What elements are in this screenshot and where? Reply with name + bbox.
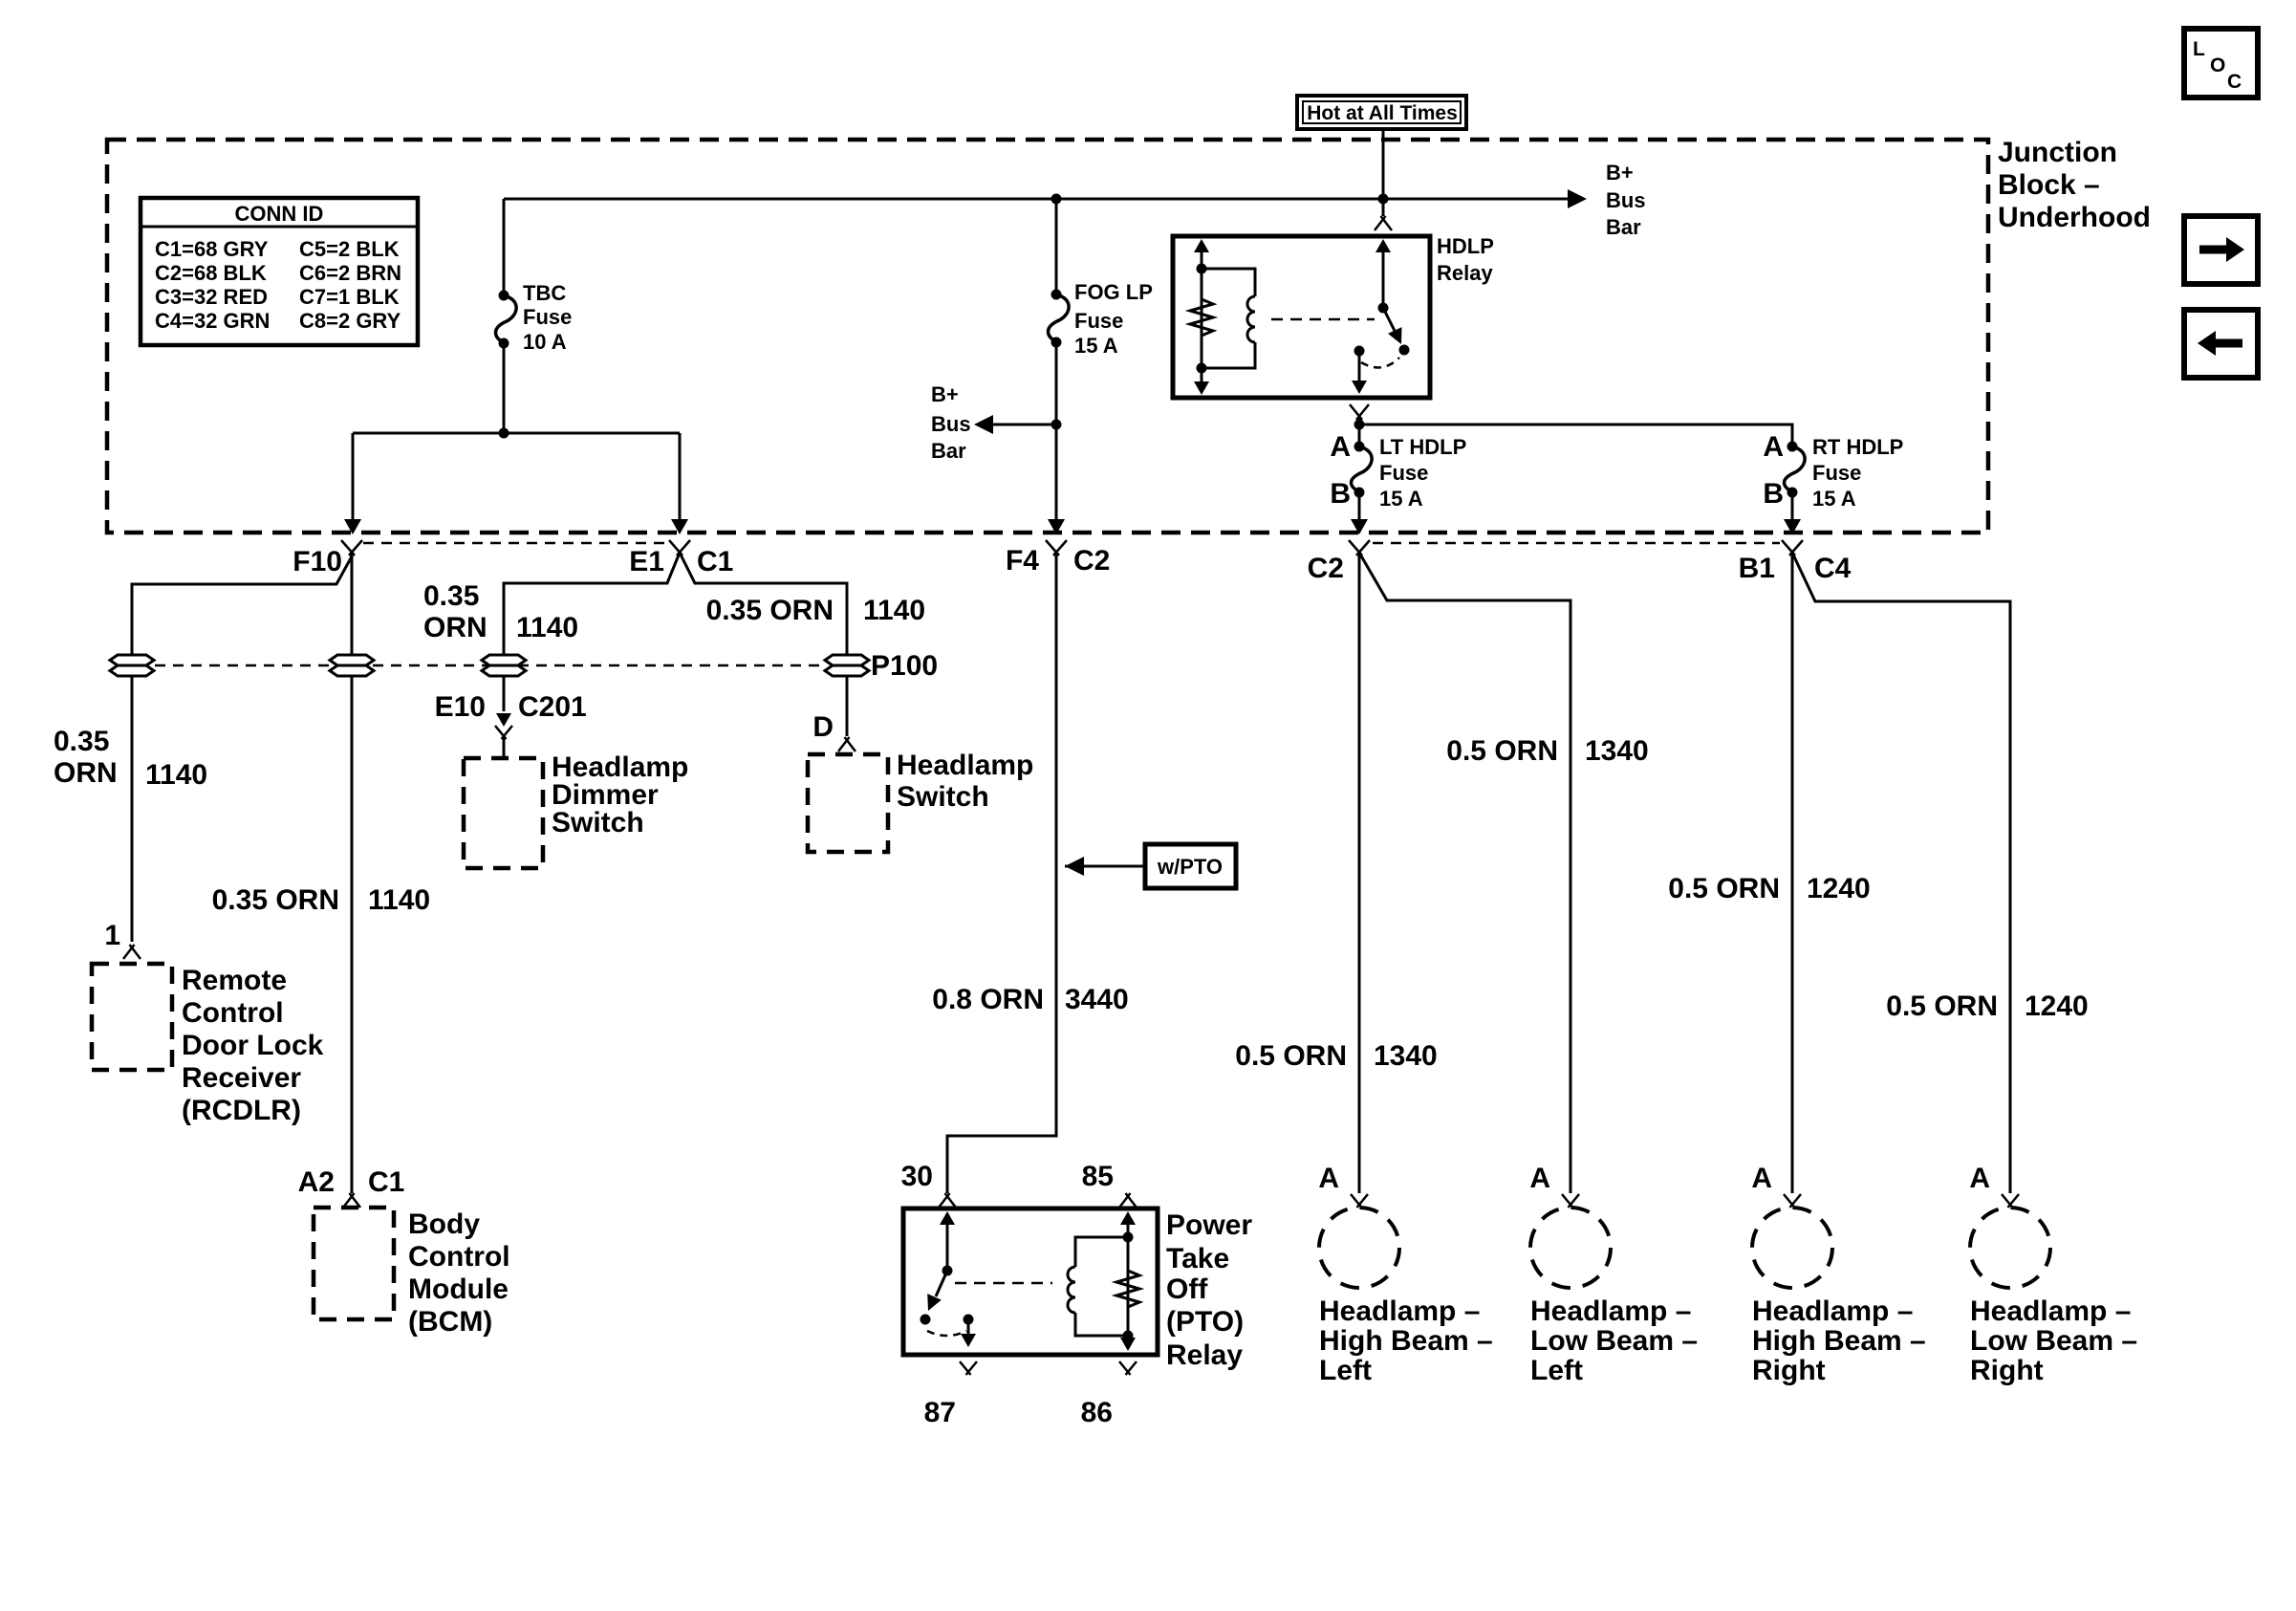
svg-text:A: A	[1330, 431, 1351, 463]
wire relay output down to LT fuse	[1358, 425, 1361, 446]
fuse FOG LP 15A	[1049, 294, 1070, 342]
resistor HDLP relay	[1190, 295, 1213, 339]
wire relay output to RT fuse	[1359, 425, 1792, 446]
svg-text:Receiver: Receiver	[182, 1062, 301, 1094]
svg-text:C1: C1	[697, 546, 733, 577]
svg-text:0.35: 0.35	[423, 580, 479, 612]
svg-text:Switch: Switch	[552, 807, 644, 838]
svg-text:Block –: Block –	[1998, 169, 2100, 201]
PTO travel dashed arc	[927, 1331, 966, 1336]
svg-text:Headlamp –: Headlamp –	[1319, 1295, 1480, 1327]
wire FOG LP fuse to F4	[1055, 342, 1058, 522]
PTO pin 30 line	[946, 1215, 949, 1271]
svg-text:1140: 1140	[145, 759, 207, 791]
svg-text:Hot at All Times: Hot at All Times	[1307, 102, 1458, 124]
svg-text:Relay: Relay	[1437, 261, 1493, 285]
svg-text:Bus: Bus	[1606, 188, 1646, 212]
connector below PTO pin 87	[960, 1361, 971, 1375]
svg-text:30: 30	[901, 1161, 933, 1192]
svg-text:1240: 1240	[2025, 991, 2089, 1022]
grommet F10 wire	[330, 655, 374, 665]
component BCM dashed box	[314, 1208, 394, 1319]
svg-text:Fuse: Fuse	[1074, 309, 1123, 333]
svg-text:RT HDLP: RT HDLP	[1812, 435, 1903, 459]
svg-text:Junction: Junction	[1998, 137, 2117, 168]
svg-text:B: B	[1330, 478, 1351, 510]
grommet E10 wire	[482, 655, 526, 665]
svg-text:Left: Left	[1530, 1355, 1583, 1386]
svg-text:1340: 1340	[1585, 735, 1649, 767]
svg-text:Control: Control	[182, 997, 284, 1029]
HDLP relay switch pivot	[1378, 303, 1388, 313]
connector PTO pin 30	[939, 1193, 950, 1208]
svg-text:Bar: Bar	[1606, 215, 1641, 239]
HDLP relay coil branch	[1202, 269, 1255, 368]
HDLP relay actuation dashed link	[1271, 318, 1375, 321]
svg-text:C4: C4	[1814, 553, 1852, 584]
svg-text:1340: 1340	[1374, 1040, 1438, 1072]
HDLP relay travel dashed arc	[1361, 358, 1399, 367]
svg-text:A: A	[1529, 1163, 1550, 1194]
svg-text:Relay: Relay	[1166, 1339, 1243, 1371]
svg-text:B+: B+	[931, 382, 959, 406]
connector B1/C4	[1782, 540, 1795, 555]
svg-text:Right: Right	[1970, 1355, 2044, 1386]
HDLP relay coil node bottom	[1197, 363, 1206, 373]
svg-text:B+: B+	[1606, 161, 1634, 185]
svg-text:0.35 ORN: 0.35 ORN	[212, 884, 339, 916]
svg-text:0.35 ORN: 0.35 ORN	[706, 595, 834, 626]
svg-text:Headlamp –: Headlamp –	[1530, 1295, 1691, 1327]
fuse RT HDLP 15A	[1785, 446, 1806, 492]
junction node relay output	[1354, 420, 1364, 429]
svg-text:O: O	[2210, 54, 2225, 76]
svg-text:F10: F10	[292, 546, 342, 577]
wire bus to TBC fuse	[503, 199, 506, 295]
wire C2 to left low beam	[1359, 553, 1570, 1193]
svg-text:L: L	[2193, 38, 2205, 60]
svg-text:0.5 ORN: 0.5 ORN	[1886, 991, 1998, 1022]
component headlamp dimmer switch dashed box	[464, 758, 543, 868]
PTO output line	[967, 1319, 970, 1344]
HDLP relay output arrow	[1352, 381, 1367, 394]
svg-text:C2: C2	[1073, 545, 1110, 577]
svg-text:Body: Body	[408, 1208, 480, 1240]
wire F10 to left branch	[132, 556, 352, 942]
svg-text:E1: E1	[629, 546, 664, 577]
PTO pin 85 arrow up inside	[1120, 1211, 1136, 1225]
arrow w/PTO points to wire	[1065, 857, 1084, 876]
connector line dashes left	[363, 542, 667, 545]
svg-text:87: 87	[924, 1397, 956, 1428]
connector F10	[341, 540, 355, 555]
svg-text:15 A: 15 A	[1074, 334, 1118, 358]
junction node fog/bus-bar tap	[1051, 420, 1061, 429]
svg-text:1240: 1240	[1807, 873, 1871, 904]
svg-text:A: A	[1969, 1163, 1990, 1194]
svg-text:Left: Left	[1319, 1355, 1372, 1386]
PTO switch arm arrowhead	[921, 1294, 942, 1314]
wire to left B+ bus bar	[991, 424, 1056, 426]
connector C201 inline	[496, 713, 511, 727]
PTO coil branch	[1075, 1237, 1128, 1336]
arrow to B+ bus bar	[1568, 189, 1587, 208]
svg-text:(BCM): (BCM)	[408, 1306, 492, 1338]
svg-text:C201: C201	[518, 691, 587, 723]
box nav arrow left	[2184, 310, 2258, 378]
table CONN ID header line	[141, 226, 418, 229]
arrow into E1	[671, 519, 688, 534]
wire bus to FOG LP fuse	[1055, 199, 1058, 294]
connector into HDLP relay	[1382, 199, 1385, 216]
svg-text:3440: 3440	[1065, 984, 1129, 1015]
grommet P100	[825, 655, 869, 665]
svg-text:Control: Control	[408, 1241, 510, 1273]
svg-text:Remote: Remote	[182, 965, 287, 996]
wire split left drop F10	[352, 433, 355, 522]
svg-text:High Beam –: High Beam –	[1319, 1325, 1493, 1357]
svg-text:Switch: Switch	[897, 781, 989, 813]
svg-text:A: A	[1763, 431, 1784, 463]
fuse TBC 10A	[496, 295, 517, 343]
PTO output arrow	[961, 1334, 976, 1347]
box LOC	[2184, 29, 2258, 98]
wire B+ bus bar feed	[504, 198, 1575, 201]
HDLP relay switch arm	[1383, 308, 1397, 337]
PTO switch pivot	[942, 1266, 952, 1275]
svg-text:B: B	[1763, 478, 1784, 510]
coil PTO relay	[1068, 1267, 1075, 1313]
component headlamp switch dashed box	[808, 754, 888, 852]
HDLP relay pin 30 line	[1382, 243, 1385, 308]
svg-text:(PTO): (PTO)	[1166, 1306, 1244, 1338]
svg-text:C2: C2	[1308, 553, 1344, 584]
svg-text:CONN ID: CONN ID	[235, 202, 324, 226]
svg-text:A: A	[1751, 1163, 1772, 1194]
arrow into B1	[1784, 519, 1801, 534]
svg-text:Headlamp: Headlamp	[897, 750, 1033, 781]
connector C2 left lamps	[1349, 540, 1362, 555]
svg-text:86: 86	[1081, 1397, 1113, 1428]
coil HDLP relay	[1247, 296, 1255, 342]
junction node bus / FOG LP	[1051, 194, 1061, 204]
svg-text:0.35: 0.35	[54, 726, 109, 757]
svg-text:10 A: 10 A	[523, 330, 567, 354]
svg-text:Bus: Bus	[931, 412, 971, 436]
connector F4/C2	[1046, 540, 1059, 555]
wire RT fuse down	[1791, 492, 1794, 522]
svg-text:ORN: ORN	[423, 612, 487, 643]
table CONN ID box	[141, 198, 418, 345]
wire hot feed drop	[1382, 129, 1385, 199]
PTO pin 85-86 line	[1127, 1215, 1130, 1348]
connector line dashes right	[1373, 542, 1780, 545]
svg-text:C3=32 RED: C3=32 RED	[155, 285, 268, 309]
svg-text:1140: 1140	[863, 595, 925, 626]
relay PTO box	[903, 1208, 1158, 1355]
svg-text:(RCDLR): (RCDLR)	[182, 1095, 301, 1126]
svg-text:w/PTO: w/PTO	[1157, 855, 1223, 879]
junction node split	[499, 428, 509, 438]
svg-text:Module: Module	[408, 1274, 509, 1305]
wire TBC fuse to split	[503, 343, 506, 433]
svg-text:Right: Right	[1752, 1355, 1826, 1386]
wire w/PTO arrow line	[1065, 865, 1145, 868]
component RCDLR dashed box	[92, 964, 172, 1070]
PTO switch contact	[921, 1315, 930, 1324]
svg-text:Headlamp –: Headlamp –	[1752, 1295, 1913, 1327]
svg-text:B1: B1	[1739, 553, 1775, 584]
HDLP relay output line	[1358, 351, 1361, 391]
HDLP relay switch contact	[1399, 345, 1409, 355]
resistor PTO relay	[1116, 1267, 1139, 1311]
box w/PTO	[1145, 844, 1236, 888]
arrow to left B+ bus bar	[974, 415, 993, 434]
arrow into C2 left	[1351, 519, 1368, 534]
svg-text:HDLP: HDLP	[1437, 234, 1494, 258]
svg-text:Take: Take	[1166, 1243, 1229, 1274]
HDLP relay switch arm arrowhead	[1388, 327, 1408, 347]
wire C2 to left high beam	[1358, 553, 1361, 1193]
svg-text:Door Lock: Door Lock	[182, 1030, 324, 1061]
svg-text:Headlamp –: Headlamp –	[1970, 1295, 2131, 1327]
connector E1/C1	[669, 540, 682, 555]
svg-text:A: A	[1318, 1163, 1339, 1194]
connector RCDLR pin 1	[123, 945, 135, 959]
wire F10 down to BCM	[351, 553, 354, 1193]
svg-text:P100: P100	[871, 650, 938, 682]
svg-text:0.5 ORN: 0.5 ORN	[1446, 735, 1558, 767]
HDLP relay pin 85 arrow up	[1194, 239, 1209, 252]
wire LT fuse down	[1358, 492, 1361, 522]
svg-text:A2: A2	[298, 1166, 335, 1198]
HDLP relay pin 85 line	[1201, 243, 1203, 392]
svg-text:Fuse: Fuse	[523, 305, 572, 329]
PTO output node	[964, 1315, 973, 1324]
connector PTO pin 85	[1119, 1193, 1131, 1208]
connector below PTO pin 86	[1119, 1361, 1131, 1375]
wire F4 down to PTO	[947, 553, 1056, 1193]
svg-text:0.5 ORN: 0.5 ORN	[1668, 873, 1780, 904]
junction block underhood dashed boundary	[107, 140, 1988, 533]
arrow into F10	[344, 519, 361, 534]
wire C4 to right low beam	[1792, 553, 2010, 1193]
svg-text:C1: C1	[368, 1166, 404, 1198]
junction node bus / hot feed	[1378, 194, 1388, 204]
PTO actuation dashed link	[955, 1282, 1052, 1285]
svg-text:Fuse: Fuse	[1379, 461, 1428, 485]
relay HDLP box	[1173, 236, 1430, 398]
svg-text:1: 1	[104, 920, 120, 951]
svg-text:1140: 1140	[368, 884, 430, 916]
svg-text:High Beam –: High Beam –	[1752, 1325, 1926, 1357]
connector D headlamp switch	[838, 737, 850, 751]
svg-text:C6=2 BRN: C6=2 BRN	[299, 261, 401, 285]
svg-text:ORN: ORN	[54, 757, 118, 789]
svg-text:FOG LP: FOG LP	[1074, 280, 1153, 304]
svg-text:15 A: 15 A	[1812, 487, 1856, 511]
PTO pin 30 arrow up	[940, 1211, 955, 1225]
box nav arrow right	[2184, 216, 2258, 284]
svg-text:C7=1 BLK: C7=1 BLK	[299, 285, 400, 309]
PTO switch arm	[936, 1271, 947, 1296]
wire E1 to dimmer drop	[504, 553, 680, 711]
svg-text:C: C	[2227, 71, 2242, 93]
svg-text:0.5 ORN: 0.5 ORN	[1235, 1040, 1347, 1072]
svg-text:C4=32 GRN: C4=32 GRN	[155, 309, 270, 333]
PTO coil node top	[1123, 1232, 1133, 1242]
arrow into F4	[1048, 519, 1065, 534]
svg-text:Bar: Bar	[931, 439, 966, 463]
HDLP relay pin 86 arrow down	[1194, 381, 1209, 395]
svg-text:85: 85	[1082, 1161, 1114, 1192]
PTO pin 86 arrow down inside	[1120, 1338, 1136, 1351]
svg-text:Off: Off	[1166, 1274, 1208, 1305]
wire split horizontal	[353, 432, 680, 435]
HDLP relay output node	[1354, 346, 1364, 356]
svg-text:C8=2 GRY: C8=2 GRY	[299, 309, 401, 333]
svg-text:Fuse: Fuse	[1812, 461, 1861, 485]
svg-text:TBC: TBC	[523, 281, 566, 305]
svg-text:Power: Power	[1166, 1209, 1252, 1241]
splice pass-through dashed line	[155, 664, 824, 667]
PTO coil node bottom	[1123, 1331, 1133, 1340]
svg-text:D: D	[812, 711, 834, 743]
fuse LT HDLP 15A	[1352, 446, 1373, 492]
svg-text:C2=68 BLK: C2=68 BLK	[155, 261, 267, 285]
svg-text:E10: E10	[435, 691, 486, 723]
HDLP relay coil node top	[1197, 264, 1206, 273]
svg-text:Low Beam –: Low Beam –	[1530, 1325, 1698, 1357]
wire C1 to headlamp switch	[680, 553, 847, 736]
connector below HDLP relay	[1350, 404, 1362, 420]
svg-text:1140: 1140	[516, 612, 578, 643]
wire B1 to right high beam	[1791, 553, 1794, 1193]
svg-text:C5=2 BLK: C5=2 BLK	[299, 237, 400, 261]
svg-text:15 A: 15 A	[1379, 487, 1423, 511]
HDLP relay pin 30 arrow up	[1375, 239, 1391, 252]
svg-text:LT HDLP: LT HDLP	[1379, 435, 1466, 459]
wire split right drop E1	[679, 433, 682, 522]
svg-text:Low Beam –: Low Beam –	[1970, 1325, 2137, 1357]
svg-text:Underhood: Underhood	[1998, 202, 2151, 233]
grommet left branch	[110, 655, 154, 665]
svg-text:0.8 ORN: 0.8 ORN	[932, 984, 1044, 1015]
power feed box Hot at All Times	[1297, 96, 1466, 129]
svg-text:F4: F4	[1006, 545, 1039, 577]
svg-text:C1=68 GRY: C1=68 GRY	[155, 237, 269, 261]
